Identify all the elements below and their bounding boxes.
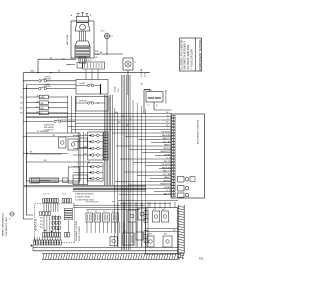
wire label: [167, 128, 169, 130]
label below-left of latch: [62, 59, 71, 67]
interlock connector pins: [79, 57, 86, 63]
title block: [180, 38, 202, 71]
cross wires above cluster: [73, 205, 145, 209]
left relay value label: [41, 113, 43, 115]
svg-text:SENSOR TN: SENSOR TN: [160, 151, 171, 153]
indicator frame upper: [88, 132, 104, 160]
svg-text:FAN HI BK: FAN HI BK: [162, 166, 171, 169]
cluster small box: [136, 232, 143, 240]
svg-text:BAKE: BAKE: [41, 96, 45, 99]
matrix bars mid 3: [52, 227, 61, 230]
svg-text:NEU OR: NEU OR: [164, 161, 172, 163]
svg-text:COM: COM: [95, 54, 100, 56]
svg-text:C: C: [69, 65, 71, 67]
indicator row 7: [73, 177, 103, 180]
svg-text:SENSOR TN: SENSOR TN: [160, 184, 171, 186]
svg-text:4D: 4D: [36, 112, 39, 114]
wire latch to upper bus: [38, 59, 76, 72]
svg-text:DR SW GY: DR SW GY: [162, 132, 172, 134]
svg-text:2: 2: [90, 20, 91, 22]
svg-text:MON SW: MON SW: [79, 101, 87, 103]
indicator feeder 2: [83, 132, 85, 185]
enclosure box 5: [73, 175, 88, 185]
wire mid label: [115, 112, 118, 114]
bus label HI: [58, 71, 60, 73]
board relay K5: [178, 177, 189, 183]
wire label: [163, 141, 172, 143]
board pin 11: [172, 145, 176, 147]
wire mid label: [126, 125, 129, 127]
svg-text:BK: BK: [30, 152, 33, 154]
matrix text row 2: [40, 221, 43, 223]
switch label: [44, 77, 51, 81]
title block note: [184, 41, 187, 70]
svg-text:DLB BU: DLB BU: [164, 154, 171, 156]
coil rotated label: [165, 89, 168, 104]
svg-text:P4-7: P4-7: [40, 227, 43, 229]
rotated label left of latch: [66, 35, 69, 45]
board-to-relay wires: [150, 202, 175, 208]
left relay K4: [26, 111, 67, 115]
wire to board pin: [146, 165, 172, 167]
svg-text:8113P376-60: 8113P376-60: [36, 218, 38, 231]
svg-text:P5: P5: [112, 202, 114, 204]
wire label: [167, 119, 169, 121]
surface switch: [23, 120, 75, 123]
board pin 16: [172, 159, 176, 161]
left relay ref label: [20, 97, 24, 99]
fuse block 2: [94, 213, 101, 222]
board pin 7: [172, 133, 176, 135]
svg-text:SW2: SW2: [95, 51, 99, 53]
svg-text:L1 W: L1 W: [166, 158, 170, 160]
enclosure top label: [37, 131, 49, 133]
wire label: [162, 132, 172, 134]
resistor pack stem: [67, 221, 69, 233]
svg-text:P1-7: P1-7: [20, 108, 24, 110]
coil feed wire: [144, 90, 150, 114]
cluster cross wire 1: [145, 228, 177, 230]
svg-text:BAKE Y: BAKE Y: [164, 144, 171, 147]
board pin 3: [172, 121, 176, 123]
page corner label: [199, 258, 204, 260]
left relay value label: [41, 107, 45, 110]
svg-text:LT: LT: [135, 62, 138, 64]
svg-text:TCO: TCO: [101, 31, 106, 33]
oven lamp label: [135, 62, 138, 64]
wire below board 2: [120, 202, 171, 204]
board pin 24: [172, 183, 176, 185]
door switch upper label: [79, 83, 85, 85]
board pin 23: [172, 180, 176, 182]
label right of latch: [95, 51, 100, 59]
indicator row 2: [73, 141, 103, 144]
svg-text:FAN SOL: FAN SOL: [144, 89, 152, 92]
svg-text:P2 CONN BR: P2 CONN BR: [37, 131, 49, 133]
board pin 4: [172, 124, 176, 126]
ribbon top labels: [43, 194, 66, 196]
svg-text:ELECTRONIC CONTROL: ELECTRONIC CONTROL: [197, 118, 199, 144]
left relay name label: [36, 106, 39, 108]
harness connector P1: [83, 62, 105, 69]
enclosure box 4: [68, 167, 79, 183]
matrix text row 1: [40, 218, 43, 220]
wire label: [163, 174, 172, 176]
svg-text:2A: 2A: [36, 95, 38, 98]
svg-text:P1-3: P1-3: [20, 97, 24, 99]
svg-text:RY2: RY2: [149, 234, 152, 236]
svg-text:FAN LO V: FAN LO V: [163, 137, 172, 140]
switch SW2: [23, 87, 76, 90]
P1 labels: [84, 60, 92, 62]
door switch lower label: [79, 101, 87, 103]
svg-text:F4: F4: [104, 211, 106, 213]
svg-text:SCHEMATIC SHOWN: SCHEMATIC SHOWN: [75, 221, 78, 241]
svg-text:DR BK: DR BK: [115, 86, 117, 92]
indicator row 4: [73, 154, 103, 157]
svg-text:SW NC: SW NC: [44, 86, 51, 88]
wire label: [166, 112, 169, 114]
enclosure box 2: [68, 139, 78, 150]
board pin 12: [172, 148, 176, 150]
left relay ref label: [20, 113, 24, 115]
board pin 14: [172, 154, 176, 156]
svg-text:HI: HI: [58, 71, 60, 73]
bus junction dot: [37, 72, 51, 73]
svg-text:A: A: [71, 14, 73, 17]
wire to board pin: [138, 139, 172, 141]
svg-text:P4-5: P4-5: [40, 224, 43, 226]
thermal cutout F1: [104, 33, 109, 54]
svg-text:1 2 3 4 5 6: 1 2 3 4 5 6: [84, 60, 92, 62]
wire label: [166, 125, 169, 127]
left rail 2: [26, 85, 33, 215]
wire y117.6: [26, 117, 67, 119]
wire OR: [23, 135, 80, 137]
wire to control board: [26, 116, 171, 118]
svg-text:NO: NO: [95, 57, 98, 59]
relay pin strip 1: [144, 211, 148, 223]
matrix text row 4: [40, 227, 43, 229]
label A top-left: [71, 14, 75, 22]
board pin 5: [172, 127, 176, 129]
left relay name label: [36, 112, 39, 114]
cluster labels: [87, 211, 114, 213]
rotated wire labels right of lamp: [141, 68, 146, 77]
door switch box lower: [76, 97, 108, 112]
bottom pin row B: [33, 240, 61, 245]
svg-text:F FUSE 15A 120V: F FUSE 15A 120V: [190, 49, 193, 70]
bottom pin row A: [43, 232, 61, 237]
wire label: [164, 161, 172, 163]
wire to board pin: [133, 161, 172, 163]
wire to board pin: [116, 145, 172, 147]
latch switch assembly pictorial: [71, 17, 94, 59]
board pin 2: [172, 118, 176, 120]
wire label: [164, 148, 172, 150]
relay inner box 3: [147, 236, 154, 247]
board pin 27: [172, 192, 176, 194]
left rail 1: [23, 73, 33, 219]
svg-text:F5: F5: [113, 211, 115, 213]
transformer label: [124, 231, 126, 233]
board pin 6: [172, 130, 176, 132]
wire label: [167, 115, 169, 117]
wire to board pin: [120, 158, 172, 160]
rail 2 feed wire: [26, 84, 76, 86]
door switch box upper: [76, 80, 108, 95]
wire to control board: [60, 119, 172, 121]
wire label: [162, 134, 171, 137]
broil element strip: [31, 178, 68, 182]
board pin 25: [172, 186, 176, 188]
wire to board pin: [128, 184, 172, 186]
stack vertical 2: [70, 96, 72, 133]
svg-text:F3: F3: [95, 211, 97, 213]
chassis boundary bottom hatch: [42, 254, 184, 260]
svg-text:L1 W: L1 W: [166, 190, 170, 192]
title block note: [190, 49, 193, 70]
indicator row 1: [73, 134, 103, 137]
svg-text:BROIL R: BROIL R: [164, 148, 172, 150]
wire to board pin: [129, 148, 172, 150]
wire mid label: [118, 122, 121, 124]
svg-text:1C: 1C: [36, 106, 39, 108]
switch label: [44, 84, 51, 88]
wire lamp to bus: [127, 70, 129, 95]
cluster inner labels: [149, 234, 167, 236]
label B top-right: [90, 15, 93, 22]
board pin 26: [172, 189, 176, 191]
left relay ref label: [20, 103, 24, 105]
svg-text:NEU OR: NEU OR: [164, 193, 172, 195]
svg-text:DOOR CLOSED: DOOR CLOSED: [79, 226, 81, 241]
wire to board pin: [155, 155, 172, 157]
svg-text:BROIL R: BROIL R: [164, 180, 172, 182]
indicator frame lower: [88, 163, 104, 181]
indicator row label: [84, 147, 87, 149]
wire label BK: [100, 52, 103, 54]
board pin 19: [172, 168, 176, 170]
board pin 13: [172, 151, 176, 153]
svg-text:DLB: DLB: [153, 209, 156, 211]
wire to board pin: [142, 152, 172, 154]
wire below board 1: [118, 200, 178, 202]
electronic range control board: [171, 114, 205, 198]
wire to control board: [71, 129, 171, 131]
wire label: [166, 190, 170, 192]
svg-text:P1-5: P1-5: [20, 103, 24, 105]
rotated part number: [36, 218, 38, 231]
bottom pin row A2: [64, 232, 69, 237]
svg-text:OV LT BR: OV LT BR: [163, 174, 172, 176]
svg-text:FAN HI BK: FAN HI BK: [162, 134, 171, 137]
relay box assembly: [145, 208, 177, 255]
board pin 20: [172, 171, 176, 173]
indicator row 3: [73, 147, 103, 150]
svg-text:L1 W: L1 W: [145, 72, 147, 77]
schematic rotated label 2: [79, 226, 81, 241]
enclosure wire 1: [30, 153, 62, 155]
svg-text:K1 K2 K3 K4 RY: K1 K2 K3 K4 RY: [86, 202, 99, 204]
chassis boundary right hatch: [178, 205, 184, 260]
wire label: [160, 184, 171, 186]
svg-text:DLB BU: DLB BU: [164, 187, 171, 189]
svg-text:W: W: [50, 57, 52, 59]
schematic rotated label 1: [75, 221, 78, 241]
wire label: [164, 154, 171, 156]
svg-text:CONVECT FAN: CONVECT FAN: [165, 89, 168, 104]
board pin 1: [172, 116, 176, 118]
svg-text:F1: F1: [111, 36, 113, 38]
svg-text:BK: BK: [141, 84, 144, 86]
svg-text:N: N: [9, 219, 11, 221]
wire to board pin: [151, 142, 172, 144]
svg-text:DR SW GY: DR SW GY: [162, 164, 172, 166]
indicator feeder 1: [77, 132, 79, 185]
svg-text:B: B: [90, 15, 92, 17]
wire label: [166, 158, 170, 160]
wire label: [163, 137, 172, 140]
leads above latch assembly: [77, 13, 89, 17]
left relay ref label: [20, 108, 24, 110]
small box left of P1: [77, 63, 82, 68]
wire to board pin: [137, 174, 172, 176]
board pin 21: [172, 174, 176, 176]
wire to board pin: [150, 178, 172, 180]
connector verticals: [44, 203, 58, 212]
svg-text:F2: F2: [87, 211, 89, 213]
svg-text:RY3: RY3: [164, 234, 167, 236]
margin rotated note line 1: [2, 213, 5, 236]
wire to control board: [75, 122, 171, 124]
note text block: [44, 125, 55, 132]
svg-text:P4-1: P4-1: [40, 218, 43, 220]
left relay value label: [41, 103, 44, 105]
wire label: [164, 187, 171, 189]
wire mid label: [130, 119, 132, 121]
svg-text:LATCH SW: LATCH SW: [66, 35, 69, 45]
indicator row 6: [73, 171, 103, 174]
cluster box r2a: [110, 237, 117, 246]
svg-text:16GA: 16GA: [30, 70, 35, 73]
fuse block 1: [86, 213, 93, 222]
svg-text:T1: T1: [124, 231, 126, 233]
title block note: [187, 44, 190, 69]
coil box top label: [144, 89, 152, 92]
relay inner box 4: [163, 236, 172, 247]
cluster verticals: [118, 202, 148, 247]
svg-text:BAKE Y: BAKE Y: [164, 176, 171, 179]
wire to control board: [68, 125, 172, 127]
harness bus band 1: [105, 95, 113, 185]
wire bottom 2: [33, 250, 178, 252]
svg-text:OR: OR: [52, 135, 55, 137]
relay inner box 2: [162, 211, 169, 222]
fuse block 4: [112, 213, 119, 222]
board pin 9: [172, 139, 176, 141]
wire to board pin: [119, 194, 172, 196]
wire to board pin: [125, 135, 172, 137]
margin rotated note line 2: [6, 216, 8, 236]
svg-text:BK: BK: [100, 52, 103, 54]
harness wires mid: [115, 108, 118, 247]
wire label: [162, 164, 172, 166]
small component row: [30, 178, 50, 183]
connector verticals low: [35, 237, 61, 240]
enclosure wire 2: [26, 160, 90, 162]
svg-text:FOR SERVICE ONLY: FOR SERVICE ONLY: [6, 216, 8, 236]
ribbon verticals: [87, 222, 136, 233]
svg-text:SW NO: SW NO: [44, 79, 51, 81]
harness bus band 2: [121, 75, 130, 250]
svg-text:N: N: [156, 105, 158, 107]
low voltage transformer T1: [123, 233, 134, 245]
stack vertical 1: [67, 96, 69, 133]
svg-text:P4-3: P4-3: [40, 221, 43, 223]
board pin 15: [172, 157, 176, 159]
svg-text:BRL: BRL: [41, 103, 44, 105]
coil labels: [148, 105, 159, 107]
svg-text:FAN LO V: FAN LO V: [163, 170, 172, 173]
svg-text:WIRING INFORMATION: WIRING INFORMATION: [2, 213, 5, 236]
wire label: [164, 193, 172, 195]
coil feed label: [141, 84, 144, 86]
wire BK: [23, 152, 68, 155]
svg-text:P1-9: P1-9: [20, 113, 24, 115]
relay labels: [153, 209, 176, 232]
left relay name label: [36, 95, 38, 98]
upper horizontal bus: [23, 72, 150, 74]
bake element enclosure: [26, 133, 80, 181]
cluster box r1a: [128, 210, 136, 222]
matrix bars mid 2: [52, 222, 61, 225]
wire to board pin: [154, 191, 172, 193]
svg-text:L1: L1: [148, 105, 150, 107]
cluster top labels: [86, 202, 114, 204]
title block note: [180, 39, 183, 69]
indicator row label: [84, 140, 87, 142]
ribbon top pin group 2: [62, 199, 71, 203]
fuse block 3: [103, 213, 110, 222]
svg-text:BA: BA: [84, 152, 86, 155]
dual solenoid coils: [146, 92, 163, 103]
wire label W: [50, 57, 52, 59]
wire mid label: [122, 115, 124, 117]
resistor pack stack: [64, 208, 72, 219]
indicator row label: [85, 134, 87, 136]
wire label: [164, 180, 172, 182]
relay pin strip 2: [144, 231, 148, 243]
enclosure box 1: [59, 137, 66, 148]
wire label: [162, 166, 171, 169]
connector verticals mid: [44, 215, 59, 232]
indicator pin column: [104, 132, 109, 160]
svg-text:2 4 6: 2 4 6: [62, 194, 66, 196]
cluster box r1b: [138, 208, 146, 220]
P1 down wires: [86, 69, 98, 80]
board rotated label: [197, 118, 199, 144]
board pin 22: [172, 177, 176, 179]
svg-text:1 FAN MOTOR BK-W: 1 FAN MOTOR BK-W: [75, 193, 93, 196]
cluster cross wire 2: [145, 231, 177, 233]
coil out wire: [154, 102, 172, 110]
board inner box: [190, 177, 195, 182]
board relay K6: [178, 186, 189, 192]
left relay K1: [26, 95, 67, 99]
svg-text:BR: BR: [44, 160, 47, 162]
ribbon top pin group 1: [43, 199, 59, 203]
